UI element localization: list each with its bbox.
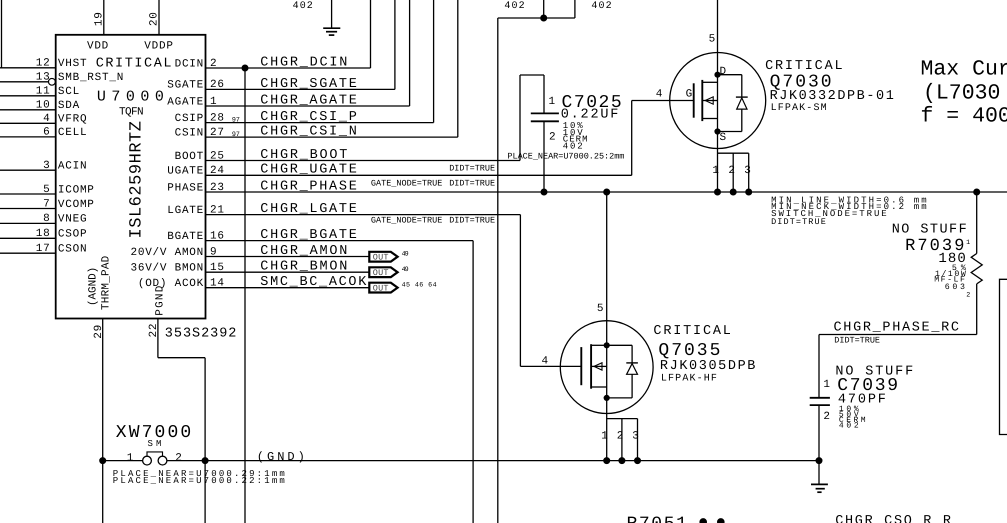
svg-text:ICOMP: ICOMP <box>58 184 95 196</box>
U7000 pin 4 VFRQ wire and labels <box>0 122 56 124</box>
svg-text:OUT: OUT <box>373 268 389 278</box>
svg-text:CHGR_UGATE: CHGR_UGATE <box>260 163 357 178</box>
svg-text:36V/V BMON: 36V/V BMON <box>131 263 205 275</box>
svg-text:OUT: OUT <box>373 284 389 294</box>
svg-text:VHST: VHST <box>58 58 87 70</box>
junction top 402 node <box>541 15 547 21</box>
svg-text:(OD) ACOK: (OD) ACOK <box>138 278 204 290</box>
svg-text:402: 402 <box>839 422 859 431</box>
svg-text:2: 2 <box>175 453 182 465</box>
svg-text:XW7000: XW7000 <box>116 423 191 443</box>
svg-text:20V/V AMON: 20V/V AMON <box>131 247 205 259</box>
U7000 pin 8 VNEG wire and labels <box>0 222 56 224</box>
net CHGR_CSI_N wire <box>206 136 458 138</box>
junction Q7030 source pin2 on PHASE <box>730 189 736 195</box>
svg-text:6: 6 <box>43 127 50 139</box>
svg-text:GATE_NODE=TRUE: GATE_NODE=TRUE <box>371 179 442 189</box>
svg-text:20: 20 <box>149 11 161 26</box>
svg-text:5: 5 <box>43 184 50 196</box>
svg-text:470PF: 470PF <box>838 392 886 407</box>
svg-text:CSIN: CSIN <box>175 127 204 139</box>
svg-text:29: 29 <box>93 324 105 339</box>
svg-text:1: 1 <box>127 453 134 465</box>
svg-text:DIDT=TRUE: DIDT=TRUE <box>834 336 880 346</box>
output flag CHGR_AMON <box>369 252 397 262</box>
U7000 pin 12 VHST wire and labels <box>0 67 56 69</box>
svg-text:402: 402 <box>504 1 525 12</box>
svg-text:45 46 64: 45 46 64 <box>402 282 437 290</box>
ground symbol bottom <box>818 461 820 485</box>
svg-text:SMC_BC_ACOK: SMC_BC_ACOK <box>260 275 367 290</box>
capacitor C7025 <box>543 75 545 113</box>
svg-text:49: 49 <box>402 266 409 274</box>
svg-text:DIDT=TRUE: DIDT=TRUE <box>449 215 495 225</box>
svg-text:CHGR_CSO_R_R: CHGR_CSO_R_R <box>835 514 951 523</box>
svg-text:7: 7 <box>43 198 50 210</box>
wire BOOT to C7025 <box>519 75 521 161</box>
R7039 zigzag body <box>971 254 982 284</box>
svg-text:CHGR_AGATE: CHGR_AGATE <box>260 93 357 108</box>
svg-text:VFRQ: VFRQ <box>58 114 87 126</box>
svg-text:PHASE: PHASE <box>167 182 204 194</box>
U7000 pin 29 THRM_PAD wire to GND <box>102 319 104 523</box>
junction C7039 to ground <box>816 458 822 464</box>
svg-text:2: 2 <box>966 291 970 299</box>
wire VHST to top edge <box>1 0 3 68</box>
node top 402 junction wires <box>498 17 575 19</box>
net CHGR_CSI_P wire <box>206 122 434 124</box>
svg-text:1: 1 <box>966 239 970 247</box>
Q7030 channel bar <box>701 80 703 121</box>
svg-text:D: D <box>720 66 727 78</box>
svg-text:VCOMP: VCOMP <box>58 199 95 211</box>
ground symbol top <box>331 0 333 28</box>
svg-text:(GND): (GND) <box>257 450 305 464</box>
svg-text:LFPAK-HF: LFPAK-HF <box>661 373 717 384</box>
svg-text:12: 12 <box>36 58 51 70</box>
Q7035 internal drain junction <box>604 343 609 348</box>
output flag SMC_BC_ACOK <box>369 283 397 293</box>
svg-text:CHGR_CSI_N: CHGR_CSI_N <box>260 125 357 140</box>
junction Q7035 source pin1 on GND <box>604 458 610 464</box>
transistor Q7030 RJK0332DPB-01 N-MOSFET <box>670 53 766 149</box>
svg-text:2: 2 <box>823 411 830 423</box>
svg-text:RJK0305DPB: RJK0305DPB <box>660 359 756 374</box>
svg-text:TQFN: TQFN <box>119 106 144 118</box>
svg-text:49: 49 <box>402 250 409 258</box>
svg-text:DIDT=TRUE: DIDT=TRUE <box>449 163 495 173</box>
svg-text:402: 402 <box>293 1 314 12</box>
net CHGR_LGATE wire <box>206 214 521 216</box>
svg-text:3: 3 <box>632 431 639 443</box>
svg-text:3: 3 <box>43 160 50 172</box>
svg-text:CHGR_AMON: CHGR_AMON <box>260 244 347 259</box>
off-page component box right edge <box>1000 279 1007 434</box>
junction CHGR_DCIN bus <box>242 65 248 71</box>
svg-text:CSOP: CSOP <box>58 229 87 241</box>
junction Q7035 drain on PHASE <box>604 189 610 195</box>
svg-text:LFPAK-SM: LFPAK-SM <box>771 103 827 114</box>
svg-text:603: 603 <box>945 283 965 292</box>
svg-text:CHGR_BOOT: CHGR_BOOT <box>260 148 347 163</box>
wire CHGR_DCIN bus down <box>244 68 246 523</box>
svg-text:DCIN: DCIN <box>175 58 204 70</box>
svg-text:SGATE: SGATE <box>167 80 204 92</box>
U7000 pin 17 CSON wire and labels <box>0 252 56 254</box>
junction GND left pin29 <box>100 458 106 464</box>
svg-text:AGATE: AGATE <box>167 96 204 108</box>
svg-text:CHGR_LGATE: CHGR_LGATE <box>260 202 357 217</box>
svg-text:DIDT=TRUE: DIDT=TRUE <box>771 217 826 227</box>
op-amp U7000 ISL6259HRTZ charger IC body <box>56 35 206 319</box>
net SMC_BC_ACOK wire <box>206 287 370 289</box>
svg-text:SCL: SCL <box>58 86 80 98</box>
U7000 pin 10 SDA wire and labels <box>0 109 56 111</box>
svg-text:ISL6259HRTZ: ISL6259HRTZ <box>128 121 147 239</box>
U7000 pin 7 VCOMP wire and labels <box>0 208 56 210</box>
svg-text:11: 11 <box>36 86 51 98</box>
Q7035 drain wire pin 5 <box>606 192 608 345</box>
svg-text:THRM_PAD: THRM_PAD <box>101 255 113 310</box>
svg-text:5: 5 <box>709 34 716 46</box>
svg-text:1: 1 <box>601 431 608 443</box>
U7000 pin 3 ACIN wire and labels <box>0 169 56 171</box>
Q7035 channel bar <box>590 344 592 389</box>
svg-text:CRITICAL: CRITICAL <box>653 324 731 339</box>
wire LGATE down to Q7035 gate <box>519 215 521 367</box>
junction C7025 pin2 on PHASE <box>541 189 547 195</box>
Q7035 internal column <box>606 345 608 398</box>
svg-text:Max Curre: Max Curre <box>921 58 1007 82</box>
svg-text:CHGR_SGATE: CHGR_SGATE <box>260 77 357 92</box>
svg-text:1: 1 <box>549 96 556 108</box>
jumper XW7000 <box>143 456 152 465</box>
svg-text:CRITICAL: CRITICAL <box>96 56 172 71</box>
Q7030 internal source junction <box>715 129 720 134</box>
svg-text:1: 1 <box>712 165 719 177</box>
R7039 lead top <box>976 192 978 254</box>
svg-text:CHGR_PHASE_RC: CHGR_PHASE_RC <box>834 321 960 336</box>
net CHGR_PHASE wire <box>206 191 1007 193</box>
Q7035 body diode branch <box>607 344 632 346</box>
net CHGR_AGATE wire <box>206 105 410 107</box>
svg-text:f = 400K: f = 400K <box>921 105 1007 129</box>
svg-text:4: 4 <box>656 89 663 101</box>
svg-text:VDDP: VDDP <box>144 41 173 53</box>
output flag CHGR_BMON <box>369 267 397 277</box>
svg-text:CELL: CELL <box>58 127 87 139</box>
svg-text:CSIP: CSIP <box>175 113 204 125</box>
svg-text:22: 22 <box>148 323 160 338</box>
R7039 lead bottom <box>976 284 978 335</box>
U7000 pin 5 ICOMP wire and labels <box>0 193 56 195</box>
Q7035 gate bar <box>580 347 582 385</box>
svg-text:402: 402 <box>563 141 583 151</box>
Q7035 source pins 1 2 3 <box>606 398 608 461</box>
svg-text:4: 4 <box>43 113 50 125</box>
svg-text:UGATE: UGATE <box>167 166 204 178</box>
svg-text:CHGR_CSI_P: CHGR_CSI_P <box>260 110 357 125</box>
Q7030 internal column <box>717 75 719 132</box>
svg-text:SDA: SDA <box>58 100 80 112</box>
svg-text:BOOT: BOOT <box>175 151 204 163</box>
svg-text:LGATE: LGATE <box>167 205 204 217</box>
junction Q7030 source pin3 on PHASE <box>746 189 752 195</box>
svg-text:RJK0332DPB-01: RJK0332DPB-01 <box>770 89 894 104</box>
svg-text:DIDT=TRUE: DIDT=TRUE <box>449 179 495 189</box>
wire top node down left vertical <box>497 18 499 523</box>
net CHGR_UGATE wire <box>206 174 632 176</box>
svg-text:17: 17 <box>36 243 51 255</box>
svg-text:PGND: PGND <box>154 285 166 316</box>
svg-text:5: 5 <box>597 303 604 315</box>
net CHGR_BOOT wire <box>206 160 521 162</box>
junction Q7035 source pin3 on GND <box>635 458 641 464</box>
Q7030 internal drain junction <box>715 72 720 77</box>
Q7030 gate wire pin 4 from UGATE <box>631 101 633 176</box>
svg-text:13: 13 <box>36 72 51 84</box>
Q7035 gate wire pin 4 from LGATE <box>520 365 581 367</box>
Q7035 channel stubs and body arrow <box>591 344 607 346</box>
net CHGR_SGATE wire <box>206 88 395 90</box>
Q7030 source pins 1 2 3 <box>717 132 719 193</box>
U7000 pin 11 SCL wire and labels <box>0 95 56 97</box>
U7000 pin 20 VDDP wire <box>158 0 160 35</box>
Q7030 body diode branch <box>718 74 742 76</box>
Q7030 drain wire from top pin 5 <box>717 0 719 75</box>
svg-text:2: 2 <box>617 431 624 443</box>
junction Q7035 source pin2 on GND <box>619 458 625 464</box>
Q7030 gate bar <box>693 83 695 117</box>
svg-text:G: G <box>686 89 693 101</box>
svg-text:1: 1 <box>823 379 830 391</box>
svg-text:CHGR_BGATE: CHGR_BGATE <box>260 228 357 243</box>
svg-text:VDD: VDD <box>87 41 109 53</box>
svg-text:18: 18 <box>36 228 51 240</box>
capacitor C7039 470PF no-stuff <box>818 335 820 398</box>
svg-text:Q7035: Q7035 <box>658 341 720 361</box>
svg-text:U7000: U7000 <box>97 89 164 106</box>
svg-text:NO STUFF: NO STUFF <box>892 222 967 237</box>
Q7035 internal source junction <box>604 395 609 400</box>
U7000 pin 22 PGND wire <box>157 319 159 358</box>
svg-text:SMB_RST_N: SMB_RST_N <box>58 72 124 84</box>
U7000 pin 13 SMB_RST_N wire and labels <box>0 81 48 83</box>
net CHGR_DCIN wire <box>206 67 371 69</box>
U7000 pin 6 CELL wire and labels <box>0 136 56 138</box>
svg-text:CHGR_PHASE: CHGR_PHASE <box>260 179 357 194</box>
Q7030 channel stubs and body arrow <box>702 81 717 83</box>
svg-text:2: 2 <box>549 132 556 144</box>
junction GND PGND column <box>202 458 208 464</box>
junction Q7030 source pin1 on PHASE <box>715 189 721 195</box>
svg-text:8: 8 <box>43 213 50 225</box>
svg-text:CHGR_BMON: CHGR_BMON <box>260 260 347 275</box>
svg-text:4: 4 <box>542 355 549 367</box>
net CHGR_BGATE wire <box>206 240 474 242</box>
svg-text:19: 19 <box>93 11 105 26</box>
svg-text:GATE_NODE=TRUE: GATE_NODE=TRUE <box>371 215 442 225</box>
wire BGATE down to bottom <box>472 241 474 523</box>
net CHGR_PHASE_RC wire <box>819 334 977 336</box>
svg-text:PLACE_NEAR=U7000.22:1mm: PLACE_NEAR=U7000.22:1mm <box>113 476 285 486</box>
svg-text:2: 2 <box>728 165 735 177</box>
svg-text:3: 3 <box>744 165 751 177</box>
svg-text:(L7030: (L7030 <box>923 81 1000 105</box>
svg-text:CHGR_DCIN: CHGR_DCIN <box>260 55 347 70</box>
net CHGR_AMON wire <box>206 256 370 258</box>
svg-text:S: S <box>720 132 727 144</box>
svg-text:(AGND): (AGND) <box>87 266 99 306</box>
U7000 pin 18 CSOP wire and labels <box>0 237 56 239</box>
transistor Q7035 RJK0305DPB N-MOSFET <box>560 321 653 414</box>
svg-text:OUT: OUT <box>373 253 389 263</box>
net CHGR_BMON wire <box>206 271 370 273</box>
svg-text:10: 10 <box>36 100 51 112</box>
svg-text:402: 402 <box>591 1 612 12</box>
svg-text:PLACE_NEAR=U7000.25:2mm: PLACE_NEAR=U7000.25:2mm <box>507 152 624 162</box>
svg-text:BGATE: BGATE <box>167 231 204 243</box>
net GND wire bottom rail <box>103 460 143 462</box>
svg-text:353S2392: 353S2392 <box>165 326 237 341</box>
junction R7039 on PHASE <box>974 189 980 195</box>
svg-text:R7051: R7051 <box>627 515 687 523</box>
svg-text:VNEG: VNEG <box>58 214 87 226</box>
svg-text:CSON: CSON <box>58 244 87 256</box>
U7000 pin 19 VDD wire <box>103 0 105 35</box>
svg-text:ACIN: ACIN <box>58 161 87 173</box>
